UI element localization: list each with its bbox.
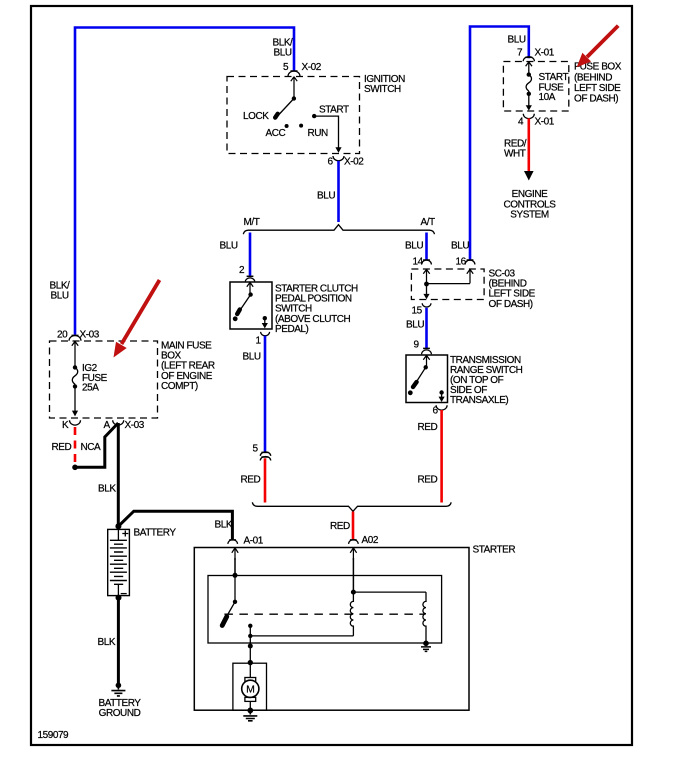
svg-text:RED: RED [52,442,72,453]
starter internal: A02 branch to coils [350,548,426,595]
svg-text:RUN: RUN [308,128,329,139]
pull-in coil [350,592,353,636]
motor M1 [242,663,259,711]
svg-text:20: 20 [57,330,68,341]
wire BLU from SC-03 pin 16 up over to start fuse pin 7 [470,27,529,260]
svg-text:BLU: BLU [406,320,424,331]
svg-text:ACC: ACC [266,128,286,139]
wire RED inline connector down to brace [264,458,267,502]
fuse START FUSE 10A [526,71,568,104]
svg-text:RED: RED [418,475,438,486]
wire down to pin 15 [426,284,428,294]
starter switch fixed contact and feed to motor [248,624,253,666]
svg-text:SYSTEM: SYSTEM [510,210,549,221]
contact ACC [285,124,289,128]
wire BLU M/T drop to clutch pedal switch pin 2 [249,233,252,276]
svg-text:A: A [104,420,111,431]
ignition switch contacts [243,96,349,153]
wire BLU ignition out down to M/T-A/T split [337,161,340,222]
minus sign [121,593,127,595]
svg-text:BLU: BLU [51,291,69,302]
node: NCA end dot [72,465,78,471]
connector SC-03 pin 16 [456,256,475,267]
ignition switch box [227,77,360,154]
arrowhead to engine controls system [524,171,534,181]
svg-text:BLU: BLU [243,352,261,363]
svg-text:BLU: BLU [317,191,335,202]
svg-text:BLU: BLU [405,241,423,252]
wire BLU clutch switch pin 1 down to inline connector 5 [264,336,267,452]
svg-text:4: 4 [518,116,524,127]
wire BLU A/T drop to SC-03 pin 14 [425,233,428,260]
plates [117,530,119,596]
connector X-01 pin 4 [518,94,555,127]
svg-text:K: K [62,420,69,431]
svg-text:BLU: BLU [274,48,292,59]
main fuse box (dashed) [50,341,158,418]
svg-text:5: 5 [283,62,289,73]
junction battery positive [115,523,121,529]
annotation arrow at main fuse box [114,280,160,358]
svg-text:10A: 10A [539,92,556,103]
svg-text:X-01: X-01 [535,48,555,59]
svg-text:A-01: A-01 [244,535,264,546]
svg-text:START: START [319,105,349,116]
starter motor box [233,663,267,710]
battery ground symbol [98,683,141,720]
svg-text:COMPT): COMPT) [161,381,198,392]
coil return wire to contact [250,635,353,637]
svg-text:GROUND: GROUND [99,708,141,719]
svg-text:159079: 159079 [38,730,70,741]
svg-text:X-01: X-01 [535,116,555,127]
svg-text:X-02: X-02 [302,62,322,73]
svg-text:X-03: X-03 [125,420,145,431]
transmission range switch contacts [408,355,445,402]
wire RED range switch pin 6 down to brace [440,410,443,503]
svg-text:1: 1 [256,336,262,347]
svg-text:2: 2 [239,265,245,276]
svg-text:BATTERY: BATTERY [134,528,177,539]
hold-in coil [423,592,426,643]
clutch pedal switch connector pin 2 [239,265,255,281]
solenoid switch blade [227,602,235,617]
svg-text:M: M [246,684,254,696]
connector X-03 pin 20 [57,330,100,341]
contact RUN [299,124,303,128]
starter internal: A-01 branch [222,548,238,626]
starter box [194,548,469,711]
svg-text:25A: 25A [82,383,99,394]
svg-text:6: 6 [328,157,334,168]
svg-text:BLU: BLU [508,35,526,46]
svg-text:BLK: BLK [98,637,116,648]
SC-03 internal wiring [423,269,473,299]
svg-text:9: 9 [414,340,420,351]
connector A-01 [228,535,264,546]
connector X-03 pin K [62,386,81,431]
svg-text:14: 14 [413,256,424,267]
connector X-02 pin 5 [283,62,322,98]
svg-text:TRANSAXLE): TRANSAXLE) [450,395,508,406]
svg-text:A/T: A/T [421,217,436,228]
battery symbol [108,528,177,601]
svg-text:15: 15 [412,306,423,317]
svg-text:NCA: NCA [81,442,102,453]
svg-text:RED: RED [418,422,438,433]
solenoid mechanical link (dashed) [224,613,424,615]
svg-text:6: 6 [433,406,439,417]
svg-text:STARTER: STARTER [473,545,516,556]
svg-text:OF DASH): OF DASH) [489,299,533,310]
connector pin 6 (range switch) [433,405,448,416]
svg-text:M/T: M/T [244,217,260,228]
starter clutch pedal position switch box [230,282,272,329]
svg-text:X-02: X-02 [344,157,364,168]
svg-text:BLK: BLK [215,519,233,530]
switch blade to LOCK [279,99,294,116]
wire RED (NCA) dashed from pin K [74,427,77,464]
connector X-01 pin 7 [517,48,555,72]
connector pin 1 (clutch switch) [256,332,270,347]
svg-text:OF DASH): OF DASH) [574,94,618,105]
plus sign [122,531,128,537]
svg-text:16: 16 [456,256,467,267]
svg-text:X-03: X-03 [80,330,100,341]
connector pin 9 [414,340,432,355]
svg-text:WHT: WHT [504,149,526,160]
annotation arrow at fuse box [577,26,619,67]
motor ground [243,708,257,721]
wire BLK/BLU from ignition switch pin 5 up over to left side down to main fuse box pin 20 [75,28,294,335]
fuse IG2 FUSE 25A [72,341,108,393]
wire BLK pin A down to battery junction [117,423,120,525]
wire RED brace to starter A02 [352,512,355,540]
contact START [312,114,316,118]
start fuse box (dashed) [503,62,568,112]
svg-text:BLK: BLK [98,483,116,494]
svg-text:SWITCH: SWITCH [364,84,401,95]
clutch switch contacts [233,282,268,328]
wire BLK battery junction to starter A-01 [118,511,232,539]
connector SC-03 pin 14 [413,256,432,267]
connector X-02 pin 6 [328,156,365,168]
connector A02 [349,535,379,546]
junction dot [424,282,429,287]
starter relay inner box [208,576,442,644]
wire BLK battery negative to ground [117,598,120,686]
svg-text:A02: A02 [362,535,379,546]
svg-text:LOCK: LOCK [243,111,269,122]
connector X-03 pin A [104,420,145,431]
wire BLK from pin A to NCA dot [77,423,119,467]
svg-text:7: 7 [517,48,523,59]
svg-text:RED: RED [330,521,350,532]
brace split M/T A/T [243,225,434,235]
svg-text:PEDAL): PEDAL) [275,324,309,335]
svg-text:RED: RED [241,475,261,486]
svg-text:5: 5 [253,444,259,455]
svg-text:BLU: BLU [220,241,238,252]
svg-text:(BEHIND: (BEHIND [574,72,612,83]
internal jumper wire [427,283,471,285]
svg-text:BLU: BLU [451,241,469,252]
svg-text:LEFT SIDE: LEFT SIDE [574,83,621,94]
junction block SC-03 box [411,269,484,300]
inline connector 5 [253,444,271,461]
brace joining red wires to A02 [252,502,451,511]
wire from START to pin 6 [314,116,338,148]
connector SC-03 pin 15 [412,303,432,316]
transmission range switch box [406,355,448,403]
wire BLU SC-03 pin 15 to range switch pin 9 [425,308,428,348]
wire RED/WHT fuse to engine controls [527,118,530,171]
coil ground [421,641,431,652]
